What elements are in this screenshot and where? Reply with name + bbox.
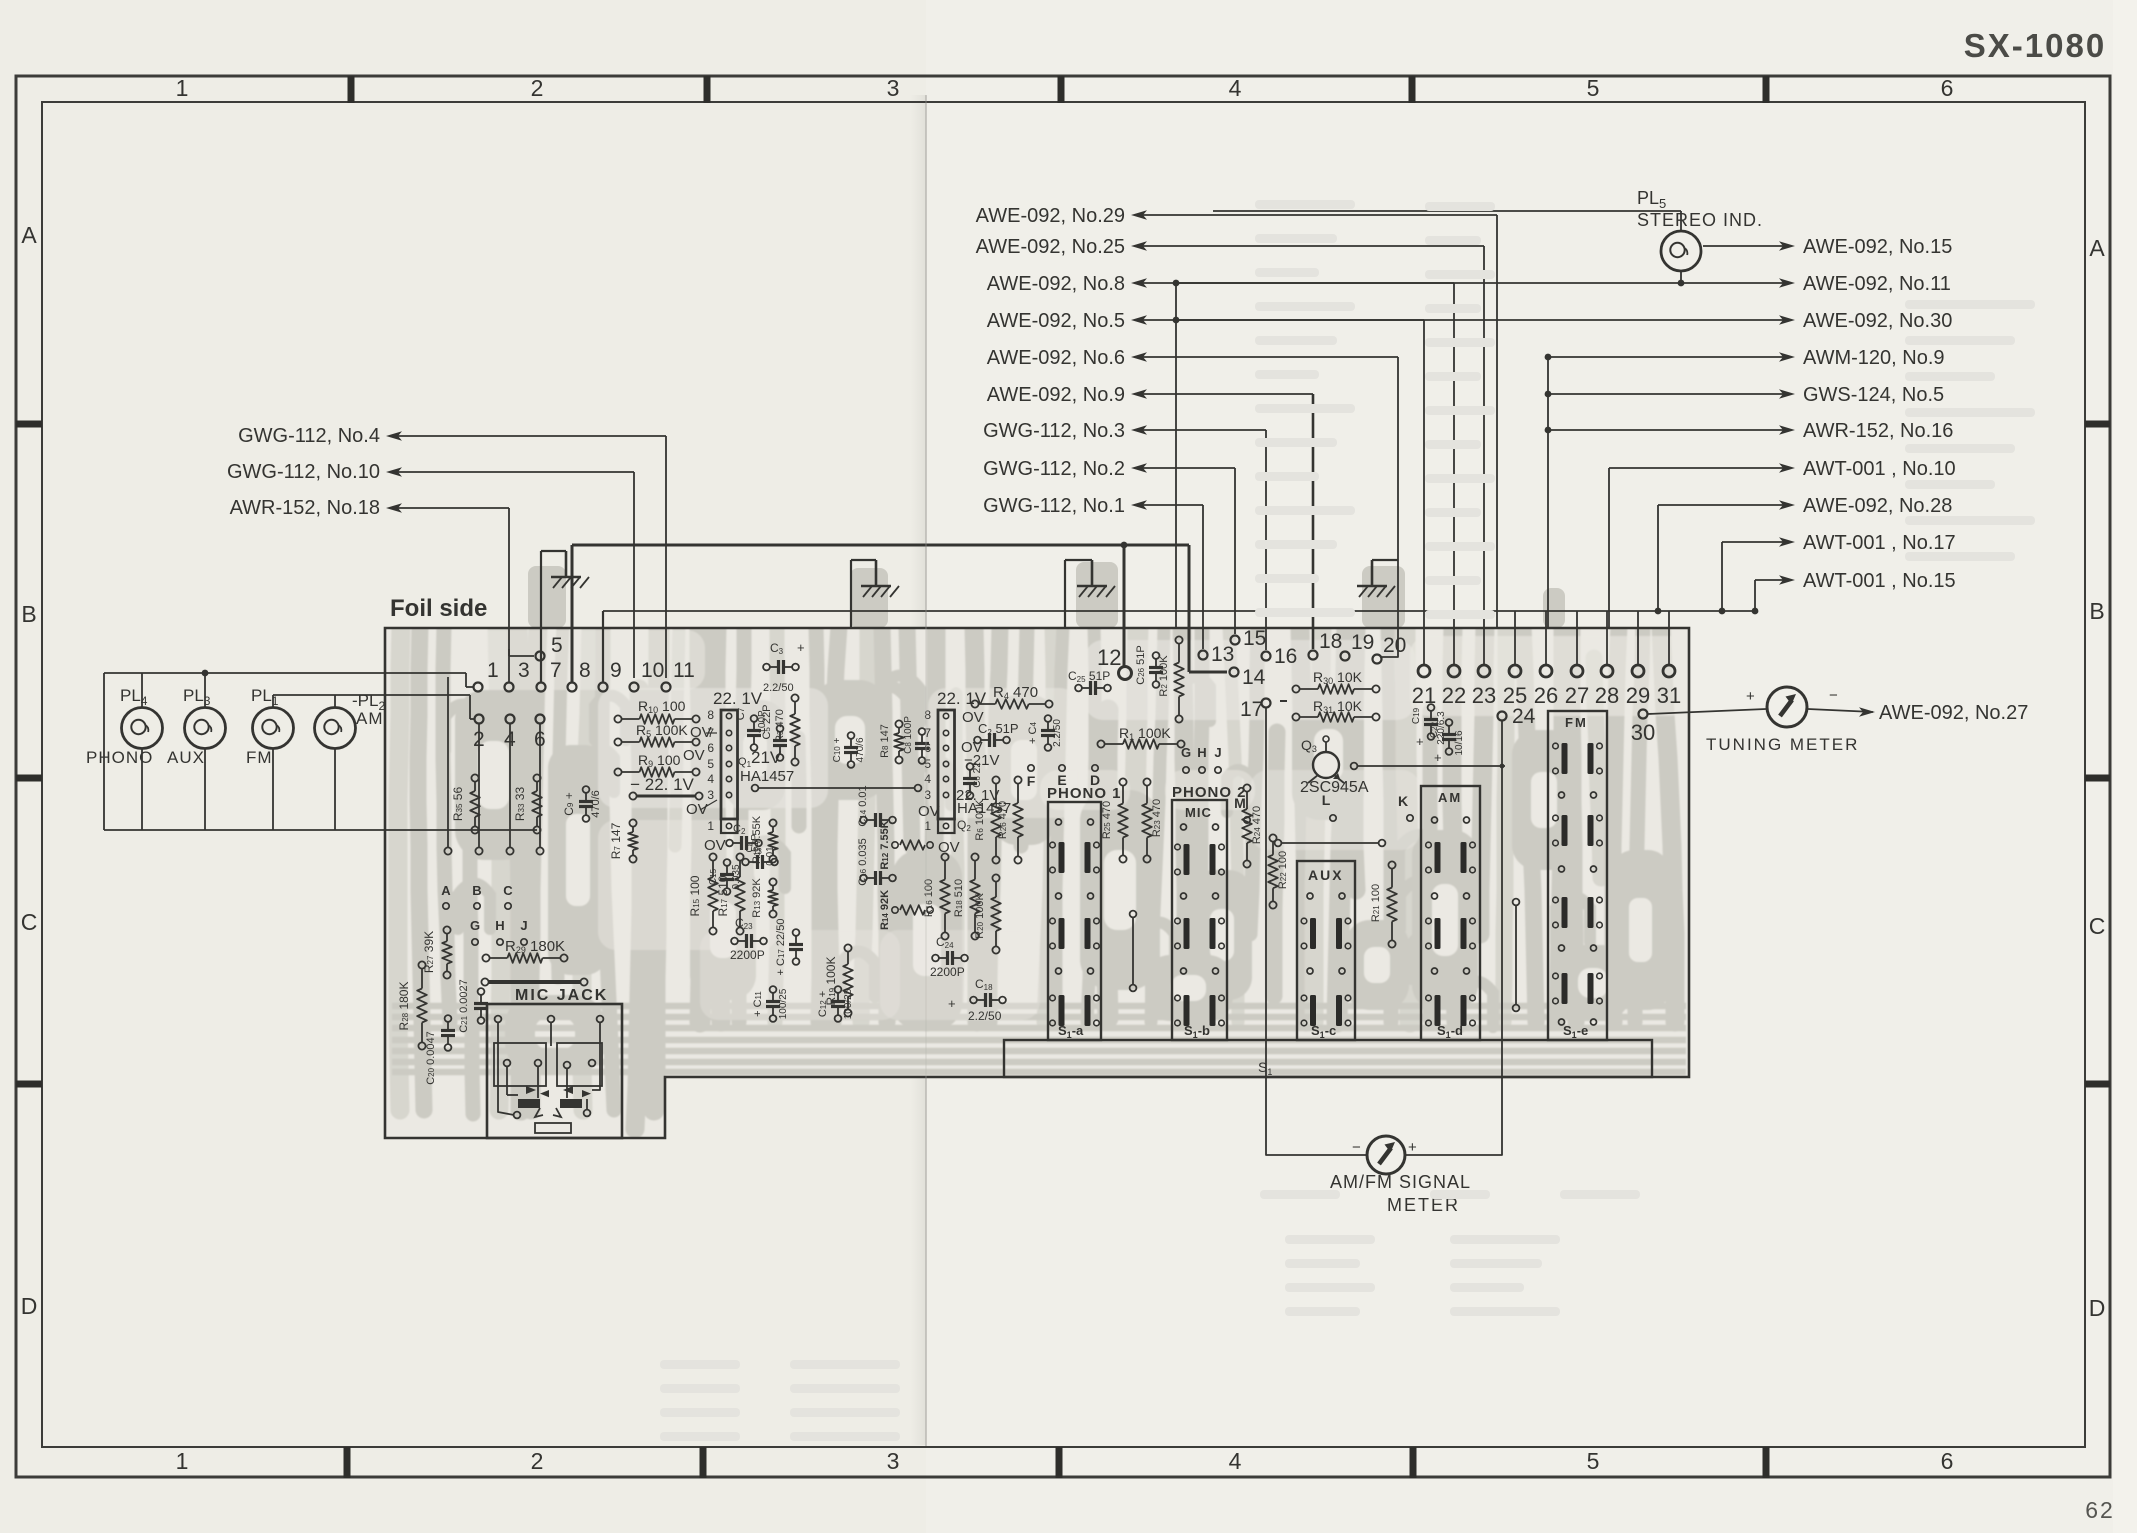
pad 20 bbox=[1373, 655, 1382, 664]
tuning meter bbox=[1648, 709, 1766, 714]
svg-text:K: K bbox=[1398, 793, 1408, 809]
svg-text:C6 22: C6 22 bbox=[972, 762, 983, 788]
svg-text:7: 7 bbox=[924, 726, 931, 740]
resistor R17 510 bbox=[736, 853, 743, 860]
capacitor C12 100/25 bbox=[831, 1000, 845, 1003]
capacitor C13 0.01 bbox=[756, 855, 759, 869]
pad 4 bbox=[506, 715, 515, 724]
svg-text:SX-1080: SX-1080 bbox=[1964, 27, 2106, 64]
svg-text:2200P: 2200P bbox=[930, 965, 965, 979]
heavy jumper wire bbox=[488, 980, 581, 984]
svg-text:15: 15 bbox=[1243, 627, 1266, 650]
capacitor C4 2.2/50 bbox=[1041, 729, 1055, 732]
pad 18 bbox=[1309, 651, 1318, 660]
svg-text:C26 51P: C26 51P bbox=[1135, 645, 1147, 685]
pad 8 bbox=[568, 683, 577, 692]
svg-text:GWG-112, No.1: GWG-112, No.1 bbox=[983, 495, 1125, 517]
pad 3 bbox=[505, 683, 514, 692]
svg-text:25: 25 bbox=[1503, 683, 1527, 708]
pad 17 bbox=[1262, 699, 1271, 708]
svg-text:5: 5 bbox=[707, 757, 714, 771]
resistor R22 100 bbox=[1269, 834, 1276, 841]
svg-text:AM: AM bbox=[1438, 790, 1462, 805]
svg-text:A: A bbox=[441, 883, 451, 898]
resistor R24 470 bbox=[1243, 784, 1250, 791]
capacitor C19 220/6.3 bbox=[1424, 718, 1438, 721]
svg-text:C14 0.01: C14 0.01 bbox=[857, 785, 869, 826]
svg-text:R23 470: R23 470 bbox=[1151, 799, 1163, 837]
svg-text:8: 8 bbox=[579, 659, 591, 682]
svg-text:C22: C22 bbox=[1429, 721, 1440, 738]
resistor R3 470 bbox=[791, 694, 798, 701]
svg-text:+: + bbox=[797, 640, 805, 655]
pad 29 bbox=[1632, 665, 1644, 677]
svg-text:C: C bbox=[21, 909, 38, 935]
bleed-through ghost rows upper bbox=[1255, 200, 1355, 209]
wire horizontal R22 top bbox=[1281, 842, 1379, 844]
svg-text:10: 10 bbox=[641, 659, 664, 682]
resistor R30 10K bbox=[1292, 685, 1299, 692]
pad 14 bbox=[1230, 668, 1239, 677]
capacitor C23 2200P bbox=[745, 934, 748, 948]
svg-text:R21 100: R21 100 bbox=[1370, 884, 1382, 922]
resistor R5 100K bbox=[614, 738, 621, 745]
svg-text:H: H bbox=[1197, 745, 1206, 760]
svg-text:S1-a: S1-a bbox=[1058, 1023, 1084, 1040]
capacitor C7 100P bbox=[747, 729, 761, 732]
resistor R20 100K bbox=[992, 874, 999, 881]
svg-text:MIC: MIC bbox=[1185, 805, 1212, 820]
svg-text:+: + bbox=[1416, 734, 1424, 749]
svg-text:F: F bbox=[1027, 773, 1036, 789]
PCB board outline bbox=[385, 628, 1689, 1138]
svg-text:AWR-152, No.18: AWR-152, No.18 bbox=[230, 497, 380, 519]
resistor R1 100K bbox=[1097, 740, 1104, 747]
svg-text:20: 20 bbox=[1383, 634, 1406, 657]
svg-text:OV: OV bbox=[683, 747, 705, 764]
svg-text:1: 1 bbox=[924, 819, 931, 833]
svg-text:C8 100P: C8 100P bbox=[903, 716, 914, 754]
svg-text:R1 100K: R1 100K bbox=[1119, 725, 1171, 742]
capacitor C25 51P bbox=[1089, 681, 1092, 695]
pad 24 bbox=[1498, 712, 1507, 721]
svg-text:C7: C7 bbox=[735, 707, 747, 720]
svg-text:G: G bbox=[470, 918, 480, 933]
svg-text:OV: OV bbox=[918, 803, 940, 820]
svg-text:R5 100K: R5 100K bbox=[636, 722, 688, 739]
svg-text:C5 22P: C5 22P bbox=[761, 704, 773, 739]
svg-text:D: D bbox=[2089, 1295, 2106, 1321]
svg-text:GWS-124, No.5: GWS-124, No.5 bbox=[1803, 384, 1944, 406]
capacitor C11 100/25 bbox=[766, 1000, 780, 1003]
resistor R27 39K bbox=[443, 926, 450, 933]
svg-text:2SC945A: 2SC945A bbox=[1300, 779, 1369, 796]
svg-text:28: 28 bbox=[1595, 683, 1619, 708]
op-amp U1 HA1457 bbox=[721, 710, 738, 819]
resistor R35 56 bbox=[471, 774, 478, 781]
resistor R4 470 bbox=[971, 700, 978, 707]
svg-text:AWT-001 , No.10: AWT-001 , No.10 bbox=[1803, 458, 1956, 480]
pad 24 wire down to meter bbox=[1406, 720, 1502, 1155]
wire between S1a S1b bbox=[1132, 918, 1134, 984]
svg-text:R31 10K: R31 10K bbox=[1313, 698, 1363, 715]
svg-text:R25 470: R25 470 bbox=[1101, 801, 1113, 839]
wire -22.1V bbox=[636, 795, 696, 798]
svg-text:6: 6 bbox=[1941, 75, 1954, 101]
svg-text:6: 6 bbox=[1941, 1448, 1954, 1474]
pad 31 bbox=[1663, 665, 1675, 677]
pad 25 bbox=[1509, 665, 1521, 677]
svg-text:2.2/50: 2.2/50 bbox=[968, 1009, 1002, 1023]
resistor R29 180K bbox=[482, 954, 489, 961]
long bus wire y611 bbox=[603, 610, 1755, 612]
pad 19 bbox=[1341, 652, 1350, 661]
svg-text:+ C11: + C11 bbox=[752, 991, 764, 1017]
svg-text:R16 100: R16 100 bbox=[923, 879, 935, 917]
svg-text:D: D bbox=[21, 1293, 38, 1319]
svg-text:C2 51P: C2 51P bbox=[978, 721, 1019, 737]
svg-text:+: + bbox=[1746, 688, 1755, 705]
pad 6 bbox=[536, 715, 545, 724]
svg-text:R24 470: R24 470 bbox=[1251, 806, 1263, 844]
pad 12 bbox=[1119, 667, 1132, 680]
svg-text:4: 4 bbox=[924, 772, 931, 786]
svg-text:AWE-092, No.28: AWE-092, No.28 bbox=[1803, 495, 1952, 517]
svg-text:24: 24 bbox=[1512, 705, 1536, 728]
pad 1 bbox=[474, 683, 483, 692]
ground symbol 2 bbox=[875, 560, 878, 586]
mic jack right contact bbox=[564, 1062, 571, 1069]
resistor R10 100 bbox=[614, 715, 621, 722]
pad 13 bbox=[1199, 651, 1208, 660]
frame column ticks top bbox=[348, 76, 355, 103]
svg-text:+ C17 22/50: + C17 22/50 bbox=[775, 919, 787, 976]
svg-text:26: 26 bbox=[1534, 683, 1558, 708]
svg-text:B: B bbox=[472, 883, 481, 898]
svg-text:R29 180K: R29 180K bbox=[505, 938, 565, 955]
vertical feeders right cluster bbox=[1175, 283, 1177, 628]
capacitor C3 2.2/50 bbox=[777, 660, 780, 674]
svg-text:14: 14 bbox=[1242, 666, 1266, 689]
wire between AM FM banks bbox=[1515, 906, 1517, 1004]
svg-text:6: 6 bbox=[707, 741, 714, 755]
pad 28 bbox=[1601, 665, 1613, 677]
pad 2 bbox=[475, 715, 484, 724]
svg-text:+: + bbox=[948, 996, 956, 1011]
svg-text:A: A bbox=[21, 222, 37, 248]
pad 22 bbox=[1448, 665, 1460, 677]
svg-text:8: 8 bbox=[707, 708, 714, 722]
svg-text:B: B bbox=[21, 601, 36, 627]
capacitor C10 470/6 bbox=[844, 746, 858, 749]
resistor R26 470 bbox=[1014, 776, 1021, 783]
svg-text:AWE-092, No.27: AWE-092, No.27 bbox=[1879, 702, 2028, 724]
svg-text:−: − bbox=[1829, 687, 1838, 704]
svg-text:AWE-092, No.15: AWE-092, No.15 bbox=[1803, 236, 1952, 258]
thick bus wire y545 bbox=[572, 544, 1189, 547]
frame row ticks right bbox=[2085, 421, 2110, 428]
svg-text:16: 16 bbox=[1274, 645, 1297, 668]
svg-text:4: 4 bbox=[707, 772, 714, 786]
ground symbol 1 bbox=[565, 551, 568, 577]
svg-text:2.2/50: 2.2/50 bbox=[1052, 719, 1063, 747]
resistor R14 92K bbox=[900, 905, 925, 915]
pad 11 bbox=[662, 683, 671, 692]
svg-text:12: 12 bbox=[1097, 645, 1121, 670]
wire mid horizontal bbox=[758, 787, 915, 789]
book fold shadow bbox=[910, 95, 926, 1445]
resistor R28 180K bbox=[418, 961, 425, 968]
svg-text:31: 31 bbox=[1657, 683, 1681, 708]
svg-text:GWG-112, No.4: GWG-112, No.4 bbox=[238, 425, 380, 447]
svg-text:OV: OV bbox=[704, 837, 726, 854]
svg-text:5: 5 bbox=[924, 757, 931, 771]
capacitor C26 51P bbox=[1149, 666, 1163, 669]
resistor R6 100K bbox=[992, 776, 999, 783]
pad 9 bbox=[599, 683, 608, 692]
mic jack left contact bbox=[504, 1060, 511, 1067]
svg-text:R2 100K: R2 100K bbox=[1158, 655, 1170, 697]
svg-text:R26 470: R26 470 bbox=[997, 801, 1009, 839]
svg-text:R4 470: R4 470 bbox=[993, 684, 1038, 701]
svg-text:1: 1 bbox=[176, 1448, 189, 1474]
svg-text:GWG-112, No.2: GWG-112, No.2 bbox=[983, 458, 1125, 480]
svg-text:0.035: 0.035 bbox=[731, 864, 742, 889]
svg-text:0.01: 0.01 bbox=[765, 846, 776, 866]
mic jack bottom slot bbox=[535, 1123, 571, 1133]
svg-text:PHONO: PHONO bbox=[86, 748, 153, 767]
svg-text:C16 0.035: C16 0.035 bbox=[857, 838, 869, 885]
wire mid right horizontal bbox=[1357, 765, 1505, 767]
svg-text:AWT-001 , No.15: AWT-001 , No.15 bbox=[1803, 570, 1956, 592]
capacitor C24 2200P bbox=[946, 951, 949, 965]
svg-text:GWG-112, No.3: GWG-112, No.3 bbox=[983, 420, 1125, 442]
svg-text:AM/FM SIGNAL: AM/FM SIGNAL bbox=[1330, 1172, 1471, 1192]
svg-text:5: 5 bbox=[551, 634, 563, 657]
capacitor C18 2.2/50 bbox=[984, 993, 987, 1007]
pad 7 bbox=[537, 683, 546, 692]
svg-text:R13 92K: R13 92K bbox=[751, 878, 763, 918]
svg-text:10/16: 10/16 bbox=[1454, 730, 1465, 755]
svg-text:2: 2 bbox=[531, 75, 544, 101]
pad 30 bbox=[1639, 710, 1648, 719]
verticals above pads 23-31 bbox=[1483, 628, 1485, 665]
pad 27 bbox=[1571, 665, 1583, 677]
capacitor C5 22P bbox=[773, 739, 787, 742]
svg-text:AWE-092, No.30: AWE-092, No.30 bbox=[1803, 310, 1952, 332]
svg-text:21: 21 bbox=[1412, 683, 1436, 708]
pad 10 bbox=[630, 683, 639, 692]
resistor R25 470 bbox=[1119, 778, 1126, 785]
svg-text:J: J bbox=[1214, 745, 1221, 760]
bleed-through ghost rows bottom table bbox=[1260, 1190, 1340, 1199]
resistor R11 7.55K bbox=[769, 819, 776, 826]
capacitor C17 22/50 bbox=[789, 943, 803, 946]
resistor R33 33 bbox=[533, 774, 540, 781]
svg-text:R22 100: R22 100 bbox=[1277, 851, 1289, 889]
svg-text:R35 56: R35 56 bbox=[451, 787, 465, 822]
svg-text:1: 1 bbox=[707, 819, 714, 833]
svg-text:22. 1V: 22. 1V bbox=[713, 689, 763, 708]
svg-text:−: − bbox=[1352, 1139, 1361, 1156]
svg-text:TUNING METER: TUNING METER bbox=[1706, 735, 1859, 754]
switch common bar S1 bbox=[1004, 1040, 1652, 1077]
svg-text:S1-d: S1-d bbox=[1437, 1023, 1463, 1040]
svg-text:HA1457: HA1457 bbox=[740, 768, 794, 785]
svg-text:+ C4: + C4 bbox=[1027, 722, 1039, 744]
svg-text:AWE-092, No.5: AWE-092, No.5 bbox=[987, 310, 1125, 332]
svg-text:R28 180K: R28 180K bbox=[397, 982, 411, 1031]
svg-text:3: 3 bbox=[887, 75, 900, 101]
svg-text:470/6: 470/6 bbox=[855, 737, 866, 762]
pad 23 bbox=[1478, 665, 1490, 677]
svg-text:27: 27 bbox=[1565, 683, 1589, 708]
svg-text:R14 92K: R14 92K bbox=[879, 890, 891, 930]
resistor R15 100 bbox=[709, 853, 716, 860]
svg-text:OV: OV bbox=[686, 801, 708, 818]
capacitor C14 0.01 bbox=[874, 813, 877, 827]
svg-text:AWR-152, No.16: AWR-152, No.16 bbox=[1803, 420, 1953, 442]
resistor R16 100 bbox=[941, 853, 948, 860]
svg-text:R3 470: R3 470 bbox=[774, 709, 786, 743]
pad 17 wire down to meter bbox=[1266, 707, 1366, 1155]
svg-text:1: 1 bbox=[487, 659, 499, 682]
svg-text:100/25: 100/25 bbox=[778, 988, 789, 1019]
ground symbol 4 bbox=[1371, 560, 1374, 586]
capacitor C9 470/6 bbox=[579, 800, 593, 803]
svg-text:29: 29 bbox=[1626, 683, 1650, 708]
svg-text:PHONO 1: PHONO 1 bbox=[1047, 785, 1122, 802]
capacitor C20 0.0047 bbox=[441, 1029, 455, 1032]
svg-text:C25 51P: C25 51P bbox=[1068, 669, 1110, 684]
svg-text:L: L bbox=[1322, 792, 1331, 808]
svg-text:+: + bbox=[1434, 750, 1442, 765]
capacitor C21 0.0027 bbox=[474, 1002, 488, 1005]
svg-text:62: 62 bbox=[2085, 1497, 2115, 1523]
capacitor C2 51P bbox=[988, 733, 991, 747]
svg-text:22: 22 bbox=[1442, 683, 1466, 708]
svg-text:AWE-092, No.11: AWE-092, No.11 bbox=[1803, 273, 1951, 295]
svg-text:R8 147: R8 147 bbox=[879, 724, 891, 758]
svg-text:19: 19 bbox=[1351, 631, 1374, 654]
svg-text:+: + bbox=[1408, 1139, 1417, 1156]
svg-text:23: 23 bbox=[1472, 683, 1496, 708]
svg-text:6: 6 bbox=[924, 741, 931, 755]
op-amp U2 HA1457 bbox=[938, 710, 955, 819]
resistor R9 100 bbox=[614, 768, 621, 775]
capacitor C22 10/16 bbox=[1442, 733, 1456, 736]
svg-text:B: B bbox=[2089, 598, 2104, 624]
svg-text:C12 +: C12 + bbox=[817, 991, 829, 1017]
pad 26 bbox=[1540, 665, 1552, 677]
svg-text:3: 3 bbox=[887, 1448, 900, 1474]
svg-text:AWE-092, No.9: AWE-092, No.9 bbox=[987, 384, 1125, 406]
pad 21 bbox=[1418, 665, 1430, 677]
svg-text:4: 4 bbox=[1229, 1448, 1242, 1474]
svg-text:C: C bbox=[503, 883, 513, 898]
svg-text:C19: C19 bbox=[1411, 707, 1422, 724]
svg-text:AWT-001 , No.17: AWT-001 , No.17 bbox=[1803, 532, 1956, 554]
svg-text:− 22. 1V: − 22. 1V bbox=[630, 775, 694, 794]
pad column stubs bbox=[478, 723, 480, 847]
svg-text:13: 13 bbox=[1211, 643, 1234, 666]
capacitor C8 100P bbox=[915, 742, 929, 745]
svg-text:OV: OV bbox=[938, 839, 960, 856]
frame column ticks bottom bbox=[344, 1447, 351, 1478]
svg-text:C21 0.0027: C21 0.0027 bbox=[458, 979, 470, 1033]
svg-text:PHONO 2: PHONO 2 bbox=[1172, 784, 1247, 801]
svg-text:100/25: 100/25 bbox=[843, 988, 854, 1019]
svg-text:2200P: 2200P bbox=[730, 948, 765, 962]
svg-text:3: 3 bbox=[707, 788, 714, 802]
svg-text:R15 100: R15 100 bbox=[688, 875, 702, 916]
svg-text:GWG-112, No.10: GWG-112, No.10 bbox=[227, 461, 380, 483]
resistor R21 100 bbox=[1388, 861, 1395, 868]
resistor R7 147 bbox=[629, 819, 636, 826]
svg-text:R6 100K: R6 100K bbox=[974, 799, 986, 841]
svg-text:AWE-092, No.25: AWE-092, No.25 bbox=[976, 236, 1125, 258]
resistor R18 510 bbox=[971, 853, 978, 860]
lamp bus wiring bbox=[104, 672, 466, 674]
switch S1-c AUX bbox=[1297, 861, 1355, 1040]
svg-text:470/6: 470/6 bbox=[590, 790, 602, 818]
resistor R12 7.55K bbox=[900, 840, 925, 850]
svg-text:5: 5 bbox=[1587, 75, 1600, 101]
svg-text:8: 8 bbox=[924, 708, 931, 722]
svg-text:R18 510: R18 510 bbox=[953, 879, 965, 917]
resistor R31 10K bbox=[1292, 713, 1299, 720]
capacitor C16 0.035 bbox=[874, 871, 877, 885]
resistor R2 100K bbox=[1175, 636, 1182, 643]
fold crease overlay bbox=[925, 96, 927, 1446]
capacitor C2x 51P bbox=[740, 836, 743, 850]
svg-text:A: A bbox=[2089, 235, 2105, 261]
svg-text:C: C bbox=[2089, 913, 2106, 939]
svg-text:5: 5 bbox=[1587, 1448, 1600, 1474]
svg-text:C15: C15 bbox=[708, 868, 719, 885]
capacitor C15 0.035 bbox=[720, 873, 734, 876]
svg-text:C10 +: C10 + bbox=[832, 737, 843, 762]
svg-text:AWE-092, No.8: AWE-092, No.8 bbox=[987, 273, 1125, 295]
svg-text:AWE-092, No.29: AWE-092, No.29 bbox=[976, 205, 1125, 227]
svg-text:R33 33: R33 33 bbox=[513, 787, 527, 822]
pad 15 bbox=[1231, 636, 1240, 645]
svg-text:R7 147: R7 147 bbox=[609, 822, 623, 859]
svg-text:7: 7 bbox=[550, 659, 562, 682]
frame row ticks left bbox=[16, 421, 42, 428]
svg-text:AM: AM bbox=[356, 709, 384, 728]
svg-text:3: 3 bbox=[518, 659, 530, 682]
svg-text:AWM-120, No.9: AWM-120, No.9 bbox=[1803, 347, 1945, 369]
svg-text:R10 100: R10 100 bbox=[638, 698, 686, 715]
svg-text:R9 100: R9 100 bbox=[638, 752, 681, 769]
switch S1-d AM bbox=[1421, 786, 1480, 1040]
svg-text:S1-b: S1-b bbox=[1184, 1023, 1210, 1040]
svg-text:11: 11 bbox=[673, 659, 695, 682]
resistor R19 100K bbox=[844, 944, 851, 951]
svg-text:2.2/50: 2.2/50 bbox=[763, 682, 794, 694]
pad 16 bbox=[1262, 652, 1271, 661]
svg-text:G: G bbox=[1181, 745, 1191, 760]
svg-text:J: J bbox=[520, 918, 527, 933]
svg-text:FM: FM bbox=[1565, 715, 1588, 730]
svg-text:18: 18 bbox=[1319, 630, 1342, 653]
capacitor C6 22 bbox=[963, 777, 977, 780]
svg-text:H: H bbox=[495, 918, 504, 933]
svg-text:4: 4 bbox=[1229, 75, 1242, 101]
ground symbol 3 bbox=[1091, 560, 1094, 586]
svg-text:Foil side: Foil side bbox=[390, 595, 487, 622]
